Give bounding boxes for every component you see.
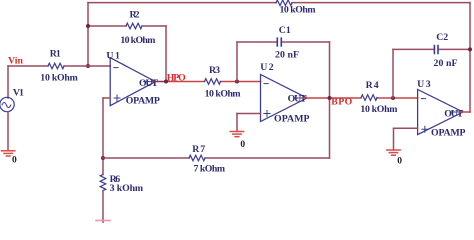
svg-text:3 kOhm: 3 kOhm [110,183,144,194]
svg-text:V1: V1 [13,88,24,99]
svg-text:HPO: HPO [167,72,186,83]
svg-text:10 kOhm: 10 kOhm [40,73,78,84]
wire U1 non-inverting input [103,97,110,99]
wire left vertical (inverting node) [87,3,89,66]
svg-text:20 nF: 20 nF [434,58,458,69]
svg-text:Vin: Vin [8,56,24,67]
svg-text:10 kOhm: 10 kOhm [120,35,155,46]
junction at inverting input wire [86,64,90,68]
wire U2 non-inverting input [237,113,261,115]
wire U3 non-inverting input [394,127,418,129]
junction at R2 wire [86,24,90,28]
wire U1 output to U2 input (HPO net) [152,81,166,83]
resistor R7 [189,155,205,161]
svg-text:R3: R3 [209,65,220,76]
svg-text:C1: C1 [279,25,291,36]
wire U3 + to ground [393,128,395,150]
wire R7 right vertical up to BPO [329,98,331,158]
resistor R3 [205,79,221,85]
wire V1 to ground [7,112,9,150]
wire U2 + to ground [236,114,238,132]
junction HPO [164,80,168,84]
svg-text:R2: R2 [130,10,140,21]
svg-text:OUT: OUT [288,93,307,104]
op-amp U1 [110,58,155,106]
svg-text:0: 0 [12,155,17,165]
junction BPO / R7 [328,96,332,100]
svg-text:OPAMP: OPAMP [274,114,310,125]
svg-text:R1: R1 [50,49,61,60]
wire C1 right vertical [329,42,331,98]
op-amp U3 [418,90,463,135]
ground (U2) [230,132,243,137]
svg-text:OPAMP: OPAMP [126,95,160,106]
wire U3 output to right edge [460,111,470,113]
resistor R6 (vertical) [100,175,106,191]
source V1 (AC sine source) [0,97,14,111]
wire HPO vertical from R2 to U1 output [165,26,167,82]
wire R7 net horizontal [103,157,189,159]
op-amp U2 [261,75,308,122]
svg-text:OUT: OUT [139,78,158,89]
wire R6 to bottom edge [102,191,104,223]
wire top feedback from LPO to U1 inverting node [88,2,276,4]
wire C2 top horizontal [393,48,434,50]
svg-text:R4: R4 [366,80,379,91]
wire right edge vertical (LPO output down) [469,3,471,112]
svg-text:10 kOhm: 10 kOhm [360,104,397,115]
wire C1 left vertical [236,42,238,82]
capacitor C2 [434,46,438,54]
svg-text:OPAMP: OPAMP [431,128,466,139]
svg-text:7 kOhm: 7 kOhm [194,164,226,175]
ground (bottom, cut off) [96,220,110,222]
wire R2 net horizontal [88,25,126,27]
wire damping node vertical [102,98,104,175]
capacitor C1 [277,38,281,46]
ground (U3) [387,150,400,155]
svg-text:U2: U2 [260,62,274,73]
junction C2 right / top feedback [468,47,472,51]
wire U2 output to U3 input (BPO net) [302,97,361,99]
resistor R5 top 10 kOhm (cut off at top edge) [276,0,292,6]
U3 output pin stub [451,111,463,113]
svg-text:10 kOhm: 10 kOhm [205,89,241,100]
svg-text:U1: U1 [106,50,120,61]
svg-text:10 kOhm: 10 kOhm [280,5,316,16]
resistor R1 [48,63,64,69]
wire Vin horizontal to U1 inverting input [8,65,48,67]
wire Vin down to source V1 [7,66,9,98]
resistor R2 [126,23,142,29]
junction R7/R6 node [101,156,105,160]
resistor R4 [361,95,377,101]
svg-text:C2: C2 [436,32,448,43]
svg-text:U3: U3 [417,79,431,90]
junction C1 left [235,80,239,84]
svg-text:OUT: OUT [444,109,463,120]
svg-text:0: 0 [240,140,245,150]
svg-text:R7: R7 [192,144,205,155]
svg-text:BPO: BPO [331,97,352,108]
svg-text:0: 0 [397,157,402,167]
U2 output pin stub [295,97,307,99]
junction C2 left [391,96,395,100]
svg-text:20 nF: 20 nF [275,50,299,61]
ground (V1) [2,151,15,156]
U1 output pin stub [144,81,156,83]
wire C1 top horizontal [237,41,277,43]
wire C2 left vertical [392,49,394,98]
